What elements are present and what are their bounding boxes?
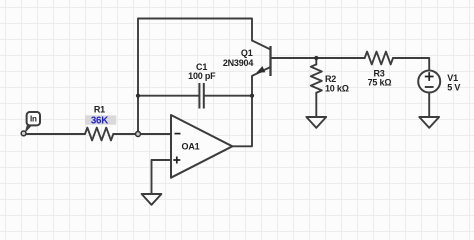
svg-text:2N3904: 2N3904 xyxy=(223,58,254,68)
junction dot C1 right / emitter xyxy=(250,94,254,98)
wire op-amp output to Q1 emitter xyxy=(232,76,252,146)
svg-text:R1: R1 xyxy=(94,105,105,115)
wire In to R1 xyxy=(26,133,85,135)
port In xyxy=(21,112,40,136)
junction dot C1 left xyxy=(136,94,140,98)
capacitor C1 xyxy=(199,83,203,109)
wire V1 to ground xyxy=(428,93,430,118)
wire op-amp non-inverting input to ground xyxy=(152,160,172,194)
wire R1 to op-amp inverting input xyxy=(113,133,171,135)
resistor R3 xyxy=(365,52,393,65)
op-amp OA1 xyxy=(171,115,232,178)
wire Q1 base to R3 xyxy=(271,57,365,59)
ground below V1 xyxy=(419,117,439,128)
svg-text:R2: R2 xyxy=(325,74,336,84)
wire R2 top lead xyxy=(315,58,317,64)
svg-text:100 pF: 100 pF xyxy=(188,71,216,81)
wire feedback: node up, top rail, down to Q1 collector xyxy=(138,19,252,135)
svg-text:5 V: 5 V xyxy=(447,83,460,93)
wire C1 right lead xyxy=(204,95,252,97)
node ring at inverting input xyxy=(136,132,141,137)
transistor Q1 xyxy=(252,41,271,77)
junction dot R2 top xyxy=(314,56,318,60)
svg-text:Q1: Q1 xyxy=(241,48,253,58)
wire R3 to V1 xyxy=(393,58,429,71)
svg-text:In: In xyxy=(30,115,37,124)
wire C1 left lead xyxy=(138,95,199,97)
voltage source V1 xyxy=(418,71,440,93)
wire R2 bottom lead xyxy=(315,93,317,117)
ground below R2 xyxy=(306,117,326,128)
resistor R1 xyxy=(85,128,113,141)
svg-text:10 kΩ: 10 kΩ xyxy=(325,84,349,94)
svg-text:36K: 36K xyxy=(91,116,108,127)
ground below op-amp non-inverting input xyxy=(142,194,162,205)
resistor R2 xyxy=(311,64,322,92)
svg-text:OA1: OA1 xyxy=(182,142,200,152)
svg-text:75 kΩ: 75 kΩ xyxy=(368,78,392,88)
highlight box for R1 value xyxy=(85,115,116,124)
